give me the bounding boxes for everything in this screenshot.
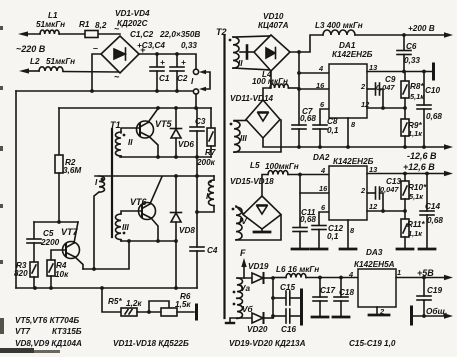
wire: left return vertical	[15, 91, 17, 288]
svg-text:0,047: 0,047	[380, 185, 399, 194]
diode VD20	[237, 317, 252, 319]
wire: VT7 emitter line y269	[83, 241, 129, 269]
svg-text:VT7: VT7	[15, 327, 30, 336]
IC DA1 К142ЕН2Б	[329, 64, 367, 118]
diode bridge VD15-VD18	[243, 196, 281, 229]
svg-text:VD19: VD19	[248, 262, 269, 271]
diode bridge VD11-VD14	[246, 100, 280, 138]
wire: negative rail y91	[16, 90, 193, 92]
svg-text:VD11-VD14: VD11-VD14	[230, 94, 274, 103]
svg-text:0,68: 0,68	[300, 114, 316, 123]
wire: connector to rail y108	[195, 94, 197, 108]
svg-text:С8: С8	[327, 117, 338, 126]
svg-text:VT5,VT6 КТ704Б: VT5,VT6 КТ704Б	[15, 316, 79, 325]
svg-text:DA1: DA1	[339, 41, 356, 50]
svg-text:Vб: Vб	[242, 304, 253, 314]
transformer T2 core	[223, 35, 225, 318]
resistor R2	[58, 108, 60, 155]
svg-text:1,2к: 1,2к	[126, 299, 142, 308]
svg-text:R7: R7	[205, 148, 216, 157]
svg-text:С19: С19	[427, 286, 442, 295]
svg-text:51мкГн: 51мкГн	[46, 57, 75, 66]
svg-text:VD11-VD18 КД522Б: VD11-VD18 КД522Б	[113, 339, 189, 348]
svg-text:+: +	[181, 58, 186, 67]
transformer T2 winding Vb	[237, 298, 243, 318]
svg-text:820: 820	[14, 269, 28, 278]
capacitor C4	[190, 246, 204, 248]
wire: winding V bottom stub	[230, 318, 237, 322]
wire: -12.6V rail y147	[263, 138, 447, 147]
wire: VT7 collector line y222	[34, 221, 78, 223]
svg-text:0,33: 0,33	[181, 41, 197, 50]
wire: rail y108	[59, 107, 211, 109]
svg-text:0,33: 0,33	[404, 56, 420, 65]
wire: VD10 output to L3	[290, 35, 323, 52]
wire: bridge plus bus	[139, 54, 196, 69]
capacitor C16	[273, 315, 285, 317]
transformer T1 winding II	[116, 132, 122, 156]
resistor R10	[404, 174, 406, 182]
svg-text:VD1-VD4: VD1-VD4	[115, 9, 150, 18]
resistor R1	[85, 31, 98, 38]
wire: R5 feed	[102, 288, 121, 312]
svg-text:С1,С2: С1,С2	[130, 30, 154, 39]
svg-text:КЦ407А: КЦ407А	[258, 21, 289, 30]
capacitor C1	[156, 54, 158, 67]
wire: rail y288	[16, 287, 197, 289]
svg-text:0,1: 0,1	[327, 232, 339, 241]
resistor R5	[121, 308, 137, 316]
diode VD19	[237, 277, 252, 279]
svg-text:С18: С18	[339, 288, 354, 297]
wire: DA2 input branch	[299, 175, 301, 228]
svg-text:С14: С14	[425, 202, 440, 211]
capacitor C12	[319, 212, 329, 225]
svg-text:VТ7: VТ7	[61, 227, 79, 237]
ground chassis bar under C11	[292, 248, 308, 251]
svg-text:2200: 2200	[40, 238, 60, 247]
svg-text:С6: С6	[406, 42, 417, 51]
svg-text:L2: L2	[30, 57, 40, 66]
wire: DA1 pin13 line	[367, 71, 432, 73]
wire: DA1 pin12 line	[367, 107, 405, 109]
svg-text:VT5: VT5	[155, 119, 173, 129]
svg-text:~: ~	[114, 24, 120, 34]
inductor L5	[262, 175, 268, 197]
svg-text:100мкГн: 100мкГн	[265, 162, 299, 171]
svg-text:R10*: R10*	[408, 183, 427, 192]
ground chassis bar under C12	[311, 248, 327, 251]
wire: DA3 pin2 lead	[376, 307, 378, 314]
wire: AC input line 2	[26, 70, 39, 72]
svg-text:2: 2	[360, 82, 366, 91]
svg-text:L1: L1	[48, 11, 58, 20]
capacitor C6	[403, 35, 405, 50]
connector plug X1 bottom circle	[193, 89, 198, 94]
svg-text:С2: С2	[177, 74, 188, 83]
ground chassis bar DA2 pin8	[340, 248, 356, 251]
svg-text:DA2: DA2	[313, 153, 330, 162]
wire: AC input line 1	[25, 33, 40, 35]
capacitor C15	[273, 297, 285, 299]
wire: rectifier junction vertical	[272, 278, 274, 318]
svg-text:0,68: 0,68	[300, 215, 316, 224]
IC DA3 К142ЕН5А	[358, 269, 396, 307]
svg-text:КТ315Б: КТ315Б	[52, 327, 82, 336]
capacitor C10	[423, 72, 425, 106]
inductor L3	[323, 30, 355, 35]
transformer T2 winding II	[233, 37, 239, 68]
svg-text:С3: С3	[195, 117, 206, 126]
svg-text:С15-С19 1,0: С15-С19 1,0	[349, 339, 396, 348]
svg-text:0,68: 0,68	[426, 112, 442, 121]
svg-text:+12,6 В: +12,6 В	[403, 162, 435, 172]
wire: common output line	[410, 307, 413, 324]
resistor R6	[161, 308, 177, 316]
svg-text:13: 13	[369, 63, 378, 72]
svg-text:200к: 200к	[196, 158, 216, 167]
resistor R4	[51, 250, 66, 260]
svg-text:II: II	[238, 59, 243, 68]
svg-text:КД202С: КД202С	[117, 19, 149, 28]
transformer T2 winding IV	[236, 207, 242, 240]
diode bridge VD10	[254, 35, 290, 71]
inductor L1	[40, 30, 59, 34]
transformer T2 winding III	[234, 121, 240, 152]
resistor R3	[30, 262, 38, 277]
resistor R8	[404, 72, 406, 82]
svg-text:~: ~	[114, 72, 120, 82]
wire: +12.6V output line	[367, 173, 447, 175]
transistor VT6	[139, 203, 156, 220]
svg-text:С1: С1	[159, 74, 170, 83]
inductor L2	[39, 67, 63, 71]
capacitor C3	[196, 108, 198, 127]
svg-text:VD20: VD20	[247, 325, 268, 334]
svg-text:5,1к: 5,1к	[410, 92, 425, 101]
svg-text:VD6: VD6	[178, 140, 194, 149]
capacitor C9	[367, 88, 375, 90]
svg-text:4: 4	[318, 64, 323, 73]
inductor L6	[273, 277, 286, 279]
wire: line y176	[95, 175, 214, 177]
svg-text:4: 4	[320, 166, 325, 175]
wire: rail y241	[121, 240, 176, 242]
ground chassis bar DA1	[432, 64, 435, 79]
svg-text:VD8,VD9 КД104А: VD8,VD9 КД104А	[15, 339, 82, 348]
svg-text:VD8: VD8	[179, 226, 195, 235]
svg-text:VD19-VD20 КД213А: VD19-VD20 КД213А	[229, 339, 306, 348]
capacitor C17	[319, 278, 321, 298]
svg-text:VD15-VD18: VD15-VD18	[230, 177, 274, 186]
svg-text:L5: L5	[250, 161, 260, 170]
diode VD8	[175, 176, 177, 212]
connector plug X1 top circle	[193, 69, 198, 74]
svg-text:С5: С5	[43, 229, 54, 238]
wire: connector bracket	[204, 72, 210, 89]
resistor R11	[404, 211, 406, 219]
resistor R9	[404, 108, 406, 119]
transformer T1 winding III	[116, 214, 122, 240]
resistor R7	[210, 108, 212, 128]
svg-text:R11*: R11*	[407, 220, 425, 229]
svg-text:Vа: Vа	[240, 284, 250, 293]
svg-text:+5В: +5В	[417, 268, 434, 278]
svg-text:С16: С16	[281, 325, 296, 334]
svg-text:1,1к: 1,1к	[408, 229, 423, 238]
svg-text:DA3: DA3	[366, 248, 383, 257]
node: arrow left tip line2	[19, 68, 29, 73]
capacitor C8	[320, 109, 329, 125]
capacitor C13	[367, 192, 375, 194]
svg-text:8,2: 8,2	[95, 21, 107, 30]
svg-text:L3 400 мкГн: L3 400 мкГн	[315, 21, 363, 30]
svg-text:3,6М: 3,6М	[63, 166, 81, 175]
svg-text:1,1к: 1,1к	[408, 129, 423, 138]
svg-text:R5*: R5*	[108, 297, 122, 306]
svg-text:13: 13	[369, 165, 378, 174]
diode VD6	[175, 108, 177, 128]
wire: +5V output line	[396, 277, 447, 279]
ground chassis bar under C14	[419, 248, 435, 251]
shield bar at VD10 input	[240, 51, 254, 53]
ground chassis bar under VD15-VD18	[261, 229, 263, 231]
svg-text:12: 12	[369, 202, 378, 211]
wire: line y157	[120, 156, 211, 158]
svg-text:Общ.: Общ.	[426, 306, 447, 316]
svg-text:10к: 10к	[55, 270, 69, 279]
capacitor C5	[33, 222, 35, 239]
inductor L4	[270, 71, 272, 88]
node: arrow left tip line1	[18, 31, 28, 36]
svg-text:+200 В: +200 В	[408, 24, 435, 33]
transistor VT5	[137, 121, 154, 138]
transformer T2 winding Va	[237, 278, 243, 298]
capacitor C14	[426, 174, 428, 212]
wire: DA2 pin12 line	[367, 210, 405, 212]
capacitor C7	[292, 124, 306, 126]
capacitor C19	[423, 278, 425, 297]
ground chassis bar under R11	[397, 248, 413, 251]
transformer T1 core	[111, 129, 113, 237]
scan artifacts left edge	[0, 26, 60, 353]
svg-text:R4: R4	[56, 261, 67, 270]
svg-text:F: F	[240, 248, 246, 258]
svg-text:4: 4	[348, 270, 353, 279]
svg-text:1: 1	[397, 268, 401, 277]
capacitor C2	[176, 54, 178, 67]
svg-text:С10: С10	[425, 86, 440, 95]
svg-text:2: 2	[379, 307, 385, 316]
svg-text:С4: С4	[207, 246, 218, 255]
svg-text:+: +	[160, 58, 165, 67]
svg-text:R8*: R8*	[410, 82, 424, 91]
svg-text:К142ЕН2Б: К142ЕН2Б	[333, 157, 374, 166]
IC DA2 К142ЕН2Б	[329, 166, 367, 220]
svg-text:III: III	[240, 134, 248, 143]
svg-text:12: 12	[361, 100, 370, 109]
svg-text:VD10: VD10	[263, 12, 284, 21]
wire: DA1 pin8 lead	[347, 118, 349, 147]
wire: R6 tap staple	[149, 301, 169, 312]
svg-text:Т2: Т2	[216, 27, 227, 37]
svg-text:16: 16	[316, 81, 325, 90]
capacitor C18	[340, 278, 342, 298]
svg-text:II: II	[128, 138, 133, 147]
svg-text:VT6: VT6	[130, 197, 148, 207]
svg-text:51мкГн: 51мкГн	[36, 20, 65, 29]
svg-text:22,0×350В: 22,0×350В	[159, 30, 200, 39]
winding polarity dots	[123, 134, 126, 137]
svg-text:16: 16	[319, 184, 328, 193]
wire: C3 bottom to rail y241	[196, 157, 198, 247]
transformer T1 winding I	[99, 176, 105, 192]
svg-text:С17: С17	[320, 286, 335, 295]
svg-text:Т1: Т1	[110, 120, 121, 130]
wire: DA2 pin8 lead	[347, 220, 349, 248]
svg-text:С15: С15	[280, 283, 295, 292]
svg-text:1,5к: 1,5к	[175, 300, 191, 309]
svg-text:+С3,С4: +С3,С4	[137, 41, 165, 50]
svg-text:~220 В: ~220 В	[16, 44, 46, 54]
svg-text:2: 2	[360, 186, 366, 195]
wire: DA1 input branch	[298, 52, 300, 125]
svg-text:К142ЕН2Б: К142ЕН2Б	[332, 50, 373, 59]
svg-text:5,1к: 5,1к	[409, 192, 424, 201]
svg-text:0,68: 0,68	[427, 216, 443, 225]
svg-text:R1: R1	[79, 20, 90, 29]
transformer T2 winding I	[209, 180, 215, 206]
svg-text:100 мкГн: 100 мкГн	[252, 77, 288, 86]
wire: bridge minus to rail	[92, 54, 101, 91]
svg-text:III: III	[122, 223, 130, 232]
svg-text:L6 16 мкГн: L6 16 мкГн	[276, 265, 319, 274]
capacitor C11	[293, 227, 307, 229]
svg-text:0,047: 0,047	[376, 83, 395, 92]
wire: +200V output line	[355, 34, 447, 36]
svg-text:-12,6 В: -12,6 В	[407, 151, 437, 161]
ground chassis bar after R6	[195, 305, 198, 319]
svg-text:–: –	[93, 43, 98, 53]
svg-text:К142ЕН5А: К142ЕН5А	[354, 260, 395, 269]
svg-text:0,1: 0,1	[327, 126, 339, 135]
transistor VT7	[63, 242, 80, 259]
diode bridge VD1-VD4	[101, 36, 139, 73]
fuse F arrow	[243, 263, 245, 278]
